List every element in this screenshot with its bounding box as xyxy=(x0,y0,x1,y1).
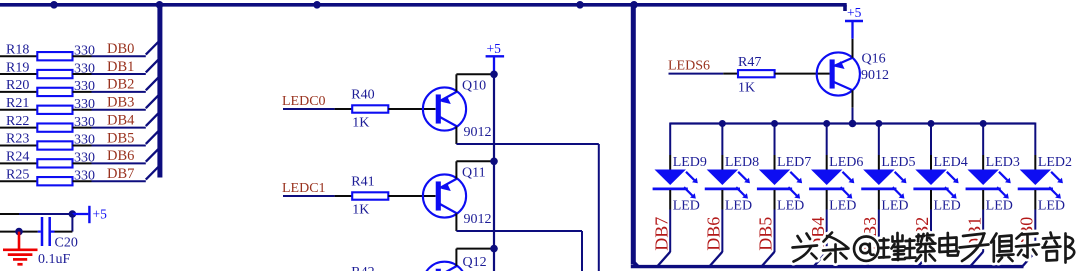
svg-text:1K: 1K xyxy=(738,81,755,96)
wire R40 to Q10 base xyxy=(388,108,435,110)
capacitor C20 value 0.1uF xyxy=(38,252,71,267)
resistor R18 value 330 xyxy=(74,43,95,58)
wire net DB4 left segment xyxy=(0,127,37,129)
bus entry DB2 bottom xyxy=(918,252,931,266)
wire Q12 emitter to +5 rail xyxy=(456,248,494,250)
junction LED rail col6 xyxy=(928,120,935,127)
junction on top bus x=317 xyxy=(313,1,321,9)
svg-text:R47: R47 xyxy=(738,55,761,70)
transistor Q10 value 9012 xyxy=(464,125,492,140)
LED LED9 triangle xyxy=(655,170,686,186)
resistor R41 value 1K xyxy=(352,203,369,218)
wire LED8 anode from rail xyxy=(721,123,723,156)
wire net DB7 left segment xyxy=(0,180,37,182)
resistor R41 1K xyxy=(352,192,388,199)
svg-text:DB6: DB6 xyxy=(107,148,134,164)
resistor R20 value 330 xyxy=(74,79,95,94)
net label DB0 xyxy=(107,41,134,57)
wire +5 top-left black segment xyxy=(0,213,19,215)
svg-text:LED: LED xyxy=(881,199,908,214)
wire net DB2 left segment xyxy=(0,91,37,93)
svg-text:R19: R19 xyxy=(6,60,29,75)
LED LED8 label xyxy=(725,155,759,170)
resistor R24 label xyxy=(6,150,29,165)
wire LED8 cathode pin xyxy=(721,190,723,210)
bus entry DB5 bottom xyxy=(762,252,775,266)
junction at +5 node xyxy=(69,210,77,218)
bus entry DB7 xyxy=(146,167,158,180)
wire net DB1 xyxy=(92,73,146,75)
svg-text:DB1: DB1 xyxy=(107,59,134,75)
wire pin R41 left xyxy=(335,195,353,197)
LED LED3 value LED xyxy=(986,199,1013,214)
resistor R41 label xyxy=(351,175,374,190)
junction at ground node xyxy=(15,228,23,236)
wire LED8 cathode down xyxy=(721,210,723,253)
LED LED9 label xyxy=(673,155,707,170)
bus entry DB7 bottom xyxy=(657,252,670,266)
svg-text:DB4: DB4 xyxy=(107,112,135,128)
resistor R22 label xyxy=(6,114,29,129)
bus entry DB6 bottom xyxy=(710,252,723,266)
resistor R23 label xyxy=(6,132,29,147)
wire Q16 collector pin xyxy=(852,90,854,107)
bus: +5V/main horizontal bus (top) xyxy=(0,5,847,11)
resistor R42 label (clipped) xyxy=(351,265,374,271)
net label DB5 xyxy=(107,130,134,146)
LED LED2 value LED xyxy=(1038,199,1065,214)
watermark 头条@璀璨电子俱乐部 (drawn strokes) xyxy=(793,233,1075,263)
wire net DB5 xyxy=(92,144,146,146)
wire pin R20 right xyxy=(73,91,92,93)
wire pin R40 left xyxy=(335,108,353,110)
svg-text:+5: +5 xyxy=(487,41,502,56)
wire net DB6 xyxy=(92,162,146,164)
LED LED2 triangle xyxy=(1020,170,1051,186)
svg-text:+5: +5 xyxy=(847,5,862,20)
wire net LEDC1 xyxy=(283,195,335,197)
wire LED6 cathode down xyxy=(826,210,828,253)
power +5 symbol (bottom-left, pointing right) xyxy=(72,206,107,223)
svg-text:R24: R24 xyxy=(6,150,29,165)
wire net DB0 xyxy=(92,55,146,57)
resistor R23 value 330 xyxy=(74,133,95,148)
bus entry DB1 bottom xyxy=(970,252,983,266)
transistor Q16 value 9012 xyxy=(861,68,889,83)
wire Q11 emitter to +5 rail xyxy=(456,160,494,162)
wire Q16 collector to LED rail xyxy=(852,108,854,124)
wire R41 to Q11 base xyxy=(388,195,435,197)
svg-text:DB5: DB5 xyxy=(107,130,134,146)
wire Q10 emitter to +5 rail xyxy=(456,73,494,75)
wire pin R21 right xyxy=(73,109,92,111)
power +5 symbol above Q10 xyxy=(486,41,505,74)
svg-text:LED: LED xyxy=(934,199,961,214)
LED LED6 cathode bar xyxy=(809,188,844,191)
LED LED4 label xyxy=(934,155,968,170)
wire Q10 collector horizontal xyxy=(456,143,598,145)
transistor Q11 9012 PNP xyxy=(423,174,466,217)
junction on top bus x=634 xyxy=(630,1,638,9)
svg-text:R22: R22 xyxy=(6,114,29,129)
resistor R21 330 xyxy=(37,106,72,114)
svg-text:R20: R20 xyxy=(6,78,29,93)
wire net DB1 left segment xyxy=(0,73,37,75)
bus entry DB0 bottom xyxy=(1023,252,1036,266)
resistor R19 label xyxy=(6,60,29,75)
svg-text:DB5: DB5 xyxy=(756,217,776,251)
LED LED3 cathode bar xyxy=(966,188,1001,191)
wire LED9 cathode down xyxy=(669,210,671,253)
junction LED rail col5 xyxy=(875,120,882,127)
svg-text:DB7: DB7 xyxy=(107,166,134,182)
svg-text:LED8: LED8 xyxy=(725,155,759,170)
svg-text:DB0: DB0 xyxy=(107,41,134,57)
net label DB3 xyxy=(107,95,134,111)
bus entry DB2 xyxy=(146,78,158,91)
svg-text:LED9: LED9 xyxy=(673,155,707,170)
wire LED2 anode from rail xyxy=(1034,123,1036,156)
transistor Q16 label xyxy=(862,52,886,67)
resistor R18 330 xyxy=(37,52,72,60)
bus entry DB0 xyxy=(146,42,158,55)
LED LED8 cathode bar xyxy=(705,188,740,191)
resistor R18 label xyxy=(6,42,29,57)
wire LED2 cathode down xyxy=(1034,210,1036,253)
bus entry DB5 xyxy=(146,131,158,144)
LED LED9 arrows xyxy=(684,172,698,199)
wire LED4 cathode pin xyxy=(930,190,932,210)
resistor R19 330 xyxy=(37,70,72,78)
LED LED2 arrows xyxy=(1049,172,1063,199)
wire C20 net left segment xyxy=(0,231,38,233)
svg-text:LED: LED xyxy=(777,199,804,214)
resistor R19 value 330 xyxy=(74,61,95,76)
resistor R47 1K xyxy=(738,70,775,77)
wire LED5 anode from rail xyxy=(878,123,880,156)
wire net DB3 xyxy=(92,109,146,111)
svg-text:R18: R18 xyxy=(6,42,29,57)
LED LED6 value LED xyxy=(829,199,856,214)
resistor R22 330 xyxy=(37,123,72,131)
wire pin R25 right xyxy=(73,180,92,182)
resistor R21 label xyxy=(6,96,29,111)
LED LED3 triangle xyxy=(967,170,998,186)
capacitor C20 label xyxy=(55,236,78,251)
LED LED8 triangle xyxy=(707,170,738,186)
wire from +5 node down to C20 net xyxy=(71,214,73,232)
resistor R24 value 330 xyxy=(74,151,95,166)
LED LED5 label xyxy=(881,155,915,170)
LED LED2 cathode bar xyxy=(1018,188,1053,191)
LED LED3 arrows xyxy=(997,172,1011,199)
svg-text:9012: 9012 xyxy=(861,68,889,83)
transistor Q11 value 9012 xyxy=(464,212,492,227)
svg-text:LEDS6: LEDS6 xyxy=(668,59,710,74)
wire LED7 anode pin xyxy=(774,155,776,170)
net label DB1 xyxy=(107,59,134,75)
svg-text:R23: R23 xyxy=(6,132,29,147)
LED LED5 cathode bar xyxy=(861,188,896,191)
net label DB4 (rotated) xyxy=(808,217,828,251)
net label DB5 (rotated) xyxy=(756,217,776,251)
wire LED2 cathode pin xyxy=(1034,190,1036,210)
svg-text:LED7: LED7 xyxy=(777,155,811,170)
wire LED4 anode pin xyxy=(930,155,932,170)
resistor R25 330 xyxy=(37,177,72,185)
svg-text:LED6: LED6 xyxy=(829,155,863,170)
junction on top bus x=159.5 xyxy=(156,1,164,9)
wire net DB6 left segment xyxy=(0,162,37,164)
svg-text:+5: +5 xyxy=(93,207,108,222)
resistor R40 label xyxy=(351,88,374,103)
svg-text:Q12: Q12 xyxy=(463,255,487,270)
wire LED3 cathode pin xyxy=(982,190,984,210)
wire net DB5 left segment xyxy=(0,144,37,146)
junction Q16 collector on LED rail xyxy=(849,120,857,128)
wire Q10 collector pin xyxy=(455,126,457,144)
bus entry DB4 xyxy=(146,113,158,126)
bus: DB data bus horizontal (bottom) xyxy=(631,262,1024,267)
LED LED6 arrows xyxy=(840,172,854,199)
LED LED5 arrows xyxy=(893,172,907,199)
LED LED8 arrows xyxy=(736,172,750,199)
bus entry DB6 xyxy=(146,149,158,162)
net label DB6 (rotated) xyxy=(704,217,724,251)
junction LED rail col2 xyxy=(719,120,726,127)
bus: DB data bus vertical (left) xyxy=(157,3,162,178)
wire LED5 cathode down xyxy=(878,210,880,253)
svg-text:R40: R40 xyxy=(351,88,374,103)
net label LEDC1 xyxy=(282,181,326,196)
svg-text:DB3: DB3 xyxy=(107,95,134,111)
resistor R47 label xyxy=(738,55,761,70)
junction on top bus x=580 xyxy=(576,1,584,9)
svg-text:LEDC1: LEDC1 xyxy=(282,181,326,196)
wire net LEDS6 xyxy=(669,73,724,75)
wire Q11 emitter pin xyxy=(455,161,457,178)
LED LED9 cathode bar xyxy=(653,188,688,191)
wire +5 top-left navy segment xyxy=(19,213,72,215)
wire Q11 collector horizontal xyxy=(456,230,582,232)
LED LED7 cathode bar xyxy=(757,188,792,191)
resistor R24 330 xyxy=(37,159,72,167)
bus entry DB4 bottom xyxy=(814,252,827,266)
wire Q10 emitter pin xyxy=(455,74,457,91)
wire LED9 anode from rail xyxy=(669,123,671,156)
net label DB7 xyxy=(107,166,134,182)
LED LED6 triangle xyxy=(811,170,842,186)
svg-text:1K: 1K xyxy=(352,116,369,131)
junction LED rail col7 xyxy=(980,120,987,127)
net label LEDS6 xyxy=(668,59,710,74)
wire LED anode rail xyxy=(670,122,1035,124)
resistor R23 330 xyxy=(37,141,72,149)
LED LED4 cathode bar xyxy=(913,188,948,191)
wire pin R47 left xyxy=(723,73,738,75)
wire LED3 anode pin xyxy=(982,155,984,170)
capacitor C20 left pin stub xyxy=(38,231,41,233)
junction LED rail col3 xyxy=(771,120,778,127)
net label DB2 xyxy=(107,77,134,93)
wire LED4 cathode down xyxy=(930,210,932,253)
wire pin R22 right xyxy=(73,127,92,129)
junction LED rail col4 xyxy=(823,120,830,127)
wire net DB0 left segment xyxy=(0,55,37,57)
wire LED8 anode pin xyxy=(721,155,723,170)
wire LED7 anode from rail xyxy=(774,123,776,156)
svg-text:R21: R21 xyxy=(6,96,29,111)
svg-text:R25: R25 xyxy=(6,167,29,182)
wire LED5 anode pin xyxy=(878,155,880,170)
transistor Q10 label xyxy=(462,79,486,94)
LED LED5 triangle xyxy=(863,170,894,186)
svg-text:Q10: Q10 xyxy=(462,79,486,94)
LED LED8 value LED xyxy=(725,199,752,214)
net label DB4 xyxy=(107,112,135,128)
transistor Q10 9012 PNP xyxy=(423,87,466,130)
wire net DB2 xyxy=(92,91,146,93)
LED LED7 arrows xyxy=(788,172,802,199)
wire LED6 anode from rail xyxy=(826,123,828,156)
resistor R20 label xyxy=(6,78,29,93)
wire Q11 collector drop xyxy=(581,231,583,271)
junction on top bus x=54 xyxy=(50,1,58,9)
svg-text:DB2: DB2 xyxy=(107,77,134,93)
LED LED3 label xyxy=(986,155,1020,170)
wire R47 to Q16 base xyxy=(775,73,830,75)
wire LED9 anode pin xyxy=(669,155,671,170)
svg-text:Q11: Q11 xyxy=(462,166,486,181)
wire LED3 cathode down xyxy=(982,210,984,253)
svg-text:LED: LED xyxy=(829,199,856,214)
resistor R22 value 330 xyxy=(74,115,95,130)
wire pin R19 right xyxy=(73,73,92,75)
svg-text:LED3: LED3 xyxy=(986,155,1020,170)
svg-text:LED: LED xyxy=(725,199,752,214)
bus entry DB3 xyxy=(146,96,158,109)
wire C20 to +5 node xyxy=(55,231,73,233)
wire Q11 collector pin xyxy=(455,213,457,231)
junction Q10 emitter on +5 rail xyxy=(490,71,498,79)
wire LED9 cathode pin xyxy=(669,190,671,210)
net label DB7 (rotated) xyxy=(651,217,671,251)
svg-text:LED: LED xyxy=(673,199,700,214)
capacitor C20 right pin stub xyxy=(51,231,55,233)
transistor Q16 9012 PNP xyxy=(817,52,860,95)
net label LEDC0 xyxy=(282,94,326,109)
wire LED4 anode from rail xyxy=(930,123,932,156)
power rail +5 vertical (middle) xyxy=(493,74,495,271)
wire net DB3 left segment xyxy=(0,109,37,111)
resistor R20 330 xyxy=(37,88,72,96)
wire LED2 anode pin xyxy=(1034,155,1036,170)
wire LED7 cathode pin xyxy=(774,190,776,210)
wire LED6 cathode pin xyxy=(826,190,828,210)
LED LED7 label xyxy=(777,155,811,170)
wire LED3 anode from rail xyxy=(982,123,984,156)
wire net DB7 xyxy=(92,180,146,182)
svg-text:Q16: Q16 xyxy=(862,52,886,67)
net label DB0 (rotated) xyxy=(1017,217,1037,251)
wire Q12 emitter pin xyxy=(455,249,457,266)
svg-text:R41: R41 xyxy=(351,175,374,190)
svg-text:LED4: LED4 xyxy=(934,155,968,170)
wire pin R18 right xyxy=(73,55,92,57)
svg-text:DB7: DB7 xyxy=(651,217,671,251)
transistor Q11 label xyxy=(462,166,486,181)
LED LED2 label xyxy=(1038,155,1072,170)
svg-text:9012: 9012 xyxy=(464,125,492,140)
LED LED9 value LED xyxy=(673,199,700,214)
wire Q10 collector drop xyxy=(598,144,600,271)
transistor Q12 label xyxy=(463,255,487,270)
LED LED4 arrows xyxy=(945,172,959,199)
LED LED6 label xyxy=(829,155,863,170)
svg-text:DB6: DB6 xyxy=(704,217,724,251)
junction Q11 emitter on +5 rail xyxy=(490,158,498,166)
junction Q12 emitter on +5 rail xyxy=(490,245,498,253)
svg-text:LEDC0: LEDC0 xyxy=(282,94,326,109)
transistor Q12 9012 PNP (clipped) xyxy=(423,262,466,271)
resistor R21 value 330 xyxy=(74,97,95,112)
resistor R40 1K xyxy=(352,105,388,112)
LED LED5 value LED xyxy=(881,199,908,214)
svg-text:LED: LED xyxy=(986,199,1013,214)
net label DB2 (rotated) xyxy=(912,217,932,251)
svg-text:LED5: LED5 xyxy=(881,155,915,170)
capacitor C20 plates xyxy=(42,217,50,246)
net label DB3 (rotated) xyxy=(860,217,880,251)
power +5 symbol above Q16 xyxy=(845,5,863,39)
wire Q16 emitter pin xyxy=(852,39,854,58)
wire LED6 anode pin xyxy=(826,155,828,170)
svg-text:1K: 1K xyxy=(352,203,369,218)
wire LED7 cathode down xyxy=(774,210,776,253)
net label DB1 (rotated) xyxy=(964,217,984,251)
svg-text:9012: 9012 xyxy=(464,212,492,227)
LED LED7 triangle xyxy=(759,170,790,186)
ground symbol (earth) xyxy=(3,232,38,265)
svg-text:0.1uF: 0.1uF xyxy=(38,252,71,267)
bus entry DB1 xyxy=(146,60,158,73)
wire LED5 cathode pin xyxy=(878,190,880,210)
wire pin R23 right xyxy=(73,144,92,146)
bus entry DB3 bottom xyxy=(866,252,879,266)
resistor R25 label xyxy=(6,167,29,182)
bus: DB data bus vertical (right) xyxy=(631,3,636,265)
net label DB6 xyxy=(107,148,134,164)
svg-text:LED2: LED2 xyxy=(1038,155,1072,170)
wire net LEDC0 xyxy=(283,108,335,110)
LED LED7 value LED xyxy=(777,199,804,214)
svg-text:R42: R42 xyxy=(351,265,374,271)
svg-text:LED: LED xyxy=(1038,199,1065,214)
resistor R47 value 1K xyxy=(738,81,755,96)
LED LED4 triangle xyxy=(915,170,946,186)
wire net DB4 xyxy=(92,127,146,129)
svg-text:C20: C20 xyxy=(55,236,78,251)
resistor R25 value 330 xyxy=(74,168,95,183)
resistor R40 value 1K xyxy=(352,116,369,131)
wire pin R24 right xyxy=(73,162,92,164)
LED LED4 value LED xyxy=(934,199,961,214)
